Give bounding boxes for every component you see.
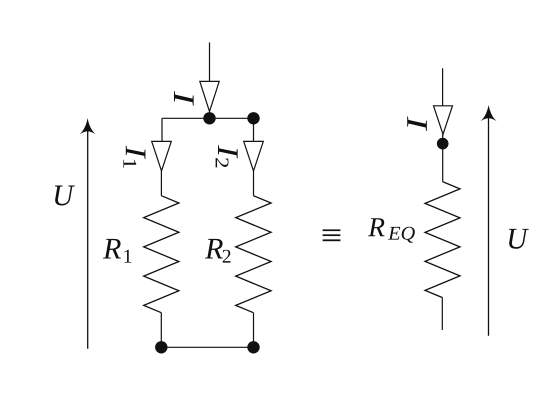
resistor R1 <box>144 196 179 313</box>
wire top feed <box>209 43 211 82</box>
wire left branch lower <box>160 313 162 348</box>
node A <box>203 112 215 124</box>
label I (top) <box>174 91 194 106</box>
node C <box>155 341 167 353</box>
node E <box>437 138 449 150</box>
resistor R2 <box>236 196 271 313</box>
current arrow I1 <box>152 141 172 171</box>
wire arrow to resistor <box>442 134 444 182</box>
label I2 <box>216 145 238 167</box>
wire bottom <box>161 346 253 348</box>
node B <box>247 112 259 124</box>
resistor REQ <box>425 182 460 298</box>
label I (right) <box>407 116 427 131</box>
current arrow I (right) <box>434 106 453 135</box>
wire right branch upper <box>253 118 255 141</box>
wire right circuit top <box>442 68 444 106</box>
label I1 <box>123 146 145 168</box>
wire left branch upper <box>161 118 163 141</box>
current arrow I (top) <box>200 81 219 111</box>
wire right branch to resistor <box>253 171 255 196</box>
node D <box>247 341 259 353</box>
label REQ <box>368 218 384 236</box>
equivalence symbol <box>323 229 341 241</box>
label R1 <box>103 239 121 259</box>
current arrow I2 <box>244 141 264 171</box>
label U (left) <box>55 186 75 206</box>
wire right circuit bottom <box>441 298 443 330</box>
wire left branch to resistor <box>160 171 162 196</box>
voltage arrow U (left) <box>80 118 96 349</box>
voltage arrow U (right) <box>481 105 497 336</box>
wire right branch lower <box>253 313 255 348</box>
label U (right) <box>509 229 529 249</box>
wire top horizontal <box>162 117 254 119</box>
label R2 <box>205 239 223 259</box>
